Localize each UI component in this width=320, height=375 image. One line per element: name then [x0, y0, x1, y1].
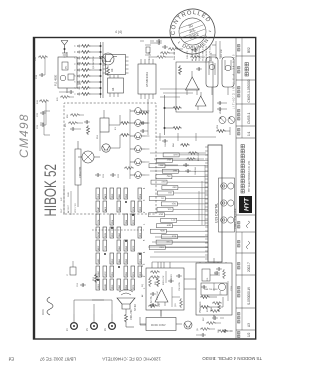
thick left border (portrait) — [33, 38, 35, 340]
svg-text:ROW: ROW — [98, 231, 100, 237]
svg-text:SQ: SQ — [142, 284, 144, 287]
strip header glyphs — [238, 45, 240, 338]
svg-text:R82 47K: R82 47K — [198, 152, 200, 161]
resistor ladder R201-R209 arrows — [77, 45, 79, 95]
power box — [196, 258, 232, 320]
power box squiggles — [210, 267, 226, 312]
CPU U19 — [205, 145, 222, 262]
bus wires to CPU — [152, 262, 226, 268]
net MUT flag — [149, 213, 165, 217]
svg-text:LM8 T.B 4558: LM8 T.B 4558 — [204, 289, 218, 291]
PA box internals — [150, 271, 180, 307]
svg-text:MUT: MUT — [158, 213, 163, 215]
test point TP3 — [109, 314, 116, 329]
LM8 sub box — [201, 283, 227, 295]
transistor Q21 — [135, 172, 142, 179]
signature squiggles — [247, 221, 250, 249]
svg-text:GND: GND — [105, 284, 107, 289]
dense label text block — [191, 45, 212, 61]
bottom-right parts near Q9 — [200, 316, 233, 333]
transistor Q9 — [184, 321, 192, 329]
speaker SP1 — [78, 151, 100, 163]
pin grid dots — [97, 201, 141, 281]
company name glyphs — [241, 145, 244, 193]
svg-text:U5 MC3361: U5 MC3361 — [145, 72, 149, 87]
svg-text:U19 DIGITAL: U19 DIGITAL — [215, 203, 219, 223]
mid caps row — [183, 152, 198, 173]
title block strip (bottom of landscape sheet) — [236, 38, 256, 340]
op-amp U6B — [196, 96, 207, 106]
net AN0 flag — [162, 169, 178, 173]
wires under labels — [64, 187, 71, 215]
transistor row Q21-Q26 — [130, 108, 145, 179]
right edge text specks — [149, 49, 223, 61]
test point TP2 — [91, 314, 98, 329]
antenna parts top right — [140, 39, 162, 43]
capacitor C35 — [196, 67, 202, 71]
svg-text:CLK: CLK — [98, 193, 100, 198]
resistor R51 — [87, 125, 90, 135]
title strip top line — [235, 38, 237, 340]
pad pair J2-3 — [221, 183, 227, 189]
PA box text specks — [157, 273, 177, 307]
inter IC vertical wires — [160, 89, 200, 97]
antenna ANT1 — [61, 41, 68, 58]
svg-text:HYT ELECTRONICS CO.,LTD.: HYT ELECTRONICS CO.,LTD. — [249, 160, 251, 192]
audio op-amp module box — [176, 62, 213, 112]
resistor R206 — [81, 63, 91, 66]
bottom edge parts — [196, 330, 232, 337]
varactor cluster wires — [156, 133, 216, 141]
small labels right of HIBOK — [61, 192, 77, 213]
svg-text:TXD: TXD — [166, 240, 171, 242]
ladder bus dots — [100, 45, 102, 95]
pad pair J2-2 — [221, 200, 227, 206]
svg-text:CM498: CM498 — [17, 113, 31, 158]
svg-text:Q3 2SC3356: Q3 2SC3356 — [93, 56, 95, 69]
mixer IC U4 — [108, 75, 124, 97]
trimpot VR4 — [228, 117, 235, 124]
svg-text:VCC: VCC — [105, 271, 107, 276]
mid region labels — [165, 142, 200, 175]
cap C75 — [217, 101, 223, 105]
speaker SP2 — [117, 290, 135, 310]
svg-text:PWR REG: PWR REG — [199, 301, 202, 313]
transistor Q24 — [135, 133, 142, 140]
top margin labels — [35, 56, 39, 129]
wire to speaker — [126, 309, 134, 327]
HIBOK 52 title — [41, 164, 59, 217]
resistor R203 — [81, 81, 91, 84]
transistor Q22 — [135, 159, 142, 166]
svg-text:DC: DC — [66, 65, 68, 69]
dashed module box — [64, 103, 156, 214]
cap C77 — [162, 139, 168, 143]
wires above U19 — [199, 165, 205, 225]
option amp bar — [75, 141, 81, 207]
resistor R73 — [216, 130, 226, 133]
net SCK flag — [162, 235, 178, 239]
svg-text:R44 10K: R44 10K — [174, 51, 176, 60]
relay K1 — [100, 118, 109, 132]
svg-text:CM05-1-030000: CM05-1-030000 — [247, 79, 251, 102]
wire through dots — [165, 95, 173, 135]
resistor R53 — [120, 122, 130, 125]
label specks left — [67, 273, 95, 287]
vco shield wires — [212, 41, 220, 59]
svg-text:GND: GND — [68, 192, 70, 197]
svg-text:1:1: 1:1 — [247, 131, 251, 136]
svg-text:DAT: DAT — [97, 206, 100, 211]
test point labels — [66, 328, 107, 331]
wire bus u5 lower — [146, 99, 148, 135]
svg-text:SCK: SCK — [171, 235, 176, 237]
resistor R205 — [81, 69, 91, 72]
svg-text:C96 470U: C96 470U — [179, 281, 181, 291]
Q3 base resistor — [107, 66, 110, 76]
flag net names — [158, 153, 178, 248]
svg-text:C301 104: C301 104 — [157, 290, 159, 300]
op-amp U6A — [186, 77, 200, 90]
svg-text:SW2: SW2 — [98, 270, 100, 276]
svg-text:BEP: BEP — [166, 224, 171, 226]
svg-text:TS MODDIN 4 OPCBL :BIS3O: TS MODDIN 4 OPCBL :BIS3O — [202, 356, 262, 361]
inter-box wires — [140, 279, 214, 325]
svg-text:AF OUT: AF OUT — [67, 204, 70, 213]
net PTT flag — [161, 218, 177, 222]
svg-text:RST: RST — [161, 180, 166, 182]
antenna coil top-left wires — [40, 111, 50, 135]
waveform scribble — [47, 297, 53, 315]
name cell glyphs — [245, 63, 248, 76]
test point TP1 — [71, 314, 78, 329]
cap C74 — [217, 107, 223, 111]
svg-text:LED: LED — [98, 258, 100, 263]
connector pad block J2 — [219, 178, 235, 232]
resistor R52 — [120, 134, 130, 137]
discriminator IC U5 — [138, 59, 156, 99]
mid region vertical wires — [150, 153, 206, 171]
svg-text:LB/87 2002 'FE 97: LB/87 2002 'FE 97 — [39, 357, 76, 362]
net IRQ flag — [156, 175, 172, 179]
top margin small parts row — [38, 56, 49, 127]
resistor R61 — [125, 313, 128, 323]
left-top extra wires — [74, 300, 112, 314]
title strip vertical dividers — [236, 56, 256, 330]
net SQL flag — [161, 202, 177, 206]
resistor R77 — [180, 144, 190, 147]
svg-text:U3: U3 — [110, 68, 114, 72]
pin grid text specks — [97, 193, 142, 289]
svg-text:MOD: MOD — [42, 309, 45, 315]
pin grid divider dashed — [92, 229, 144, 231]
svg-text:A3: A3 — [247, 323, 251, 327]
VR labels — [217, 109, 222, 129]
resistor R201 — [81, 93, 91, 96]
net LED flag — [163, 153, 179, 157]
transistor Q23 — [135, 146, 142, 153]
resistor R31 — [172, 127, 182, 130]
net BEP flag — [156, 224, 172, 228]
resistor R207 — [81, 57, 91, 60]
net label flags above CPU — [149, 153, 209, 250]
svg-text:1/2: 1/2 — [247, 332, 251, 337]
cap C91 — [80, 283, 86, 287]
DC/DC converter box — [140, 318, 182, 331]
resistor R208 — [81, 51, 91, 54]
schematic border frame — [34, 38, 256, 340]
module wiring — [100, 110, 120, 151]
net VOL flag — [157, 207, 173, 211]
resistor R71 — [139, 112, 149, 115]
svg-text:2002.7: 2002.7 — [247, 262, 251, 272]
power box internals — [214, 271, 228, 312]
transistor row bus — [130, 109, 149, 179]
svg-text:LITHO'D IN U.S.A. 36-9110: LITHO'D IN U.S.A. 36-9110 — [233, 54, 236, 109]
cap C71 — [140, 129, 146, 133]
Q9 area labels — [197, 316, 220, 333]
PA box extra squiggles — [148, 271, 183, 309]
pad pair J2-1 — [221, 217, 227, 223]
net TXD flag — [156, 240, 172, 244]
IF amp IC U3 — [103, 55, 129, 75]
junction dot B — [164, 127, 166, 129]
crystal filter FL1 — [58, 52, 81, 93]
svg-text:SW1: SW1 — [98, 283, 100, 289]
svg-text:1200*HC CB FE :CH4607E1A: 1200*HC CB FE :CH4607E1A — [102, 357, 161, 362]
svg-text:B52: B52 — [247, 47, 251, 53]
resistor R35 — [179, 65, 182, 75]
xtal Y1 — [145, 45, 151, 55]
resistor R204 — [81, 75, 91, 78]
audio PA box — [146, 262, 184, 316]
parts below FL1 — [59, 90, 75, 98]
cap C72 — [140, 121, 146, 125]
power box text specks — [207, 270, 233, 312]
resistor R91 — [95, 273, 98, 283]
small connector stub — [70, 261, 76, 275]
capacitor C51 — [84, 120, 90, 124]
svg-text:C99L/780: C99L/780 — [130, 309, 133, 320]
svg-text:COL: COL — [98, 219, 100, 224]
svg-text:VCC 7.2V: VCC 7.2V — [75, 203, 77, 213]
svg-text:Ed: Ed — [8, 357, 14, 362]
stamp: CONTROLLED DOCUMENT — [164, 3, 222, 61]
net RST flag — [151, 180, 167, 184]
svg-text:SDA: SDA — [160, 229, 165, 232]
svg-text:4 (4): 4 (4) — [115, 30, 122, 34]
power box part labels — [207, 277, 222, 311]
module upper labels — [65, 113, 69, 127]
net SDA flag — [150, 229, 166, 233]
pin number row — [144, 187, 146, 289]
svg-text:KEY: KEY — [98, 245, 100, 250]
title strip mid line — [241, 38, 243, 331]
svg-text:C99L/780: C99L/780 — [78, 166, 82, 178]
resistor R209 — [81, 45, 91, 48]
svg-text:CM05-1: CM05-1 — [247, 112, 251, 124]
transistor Q25 — [135, 120, 142, 127]
resistor R202 — [81, 87, 91, 90]
resistor R32 — [172, 107, 182, 110]
svg-text:CLK: CLK — [167, 191, 172, 193]
svg-text:BATT 7.2V 1.2A: BATT 7.2V 1.2A — [209, 46, 212, 61]
MIC module — [206, 57, 218, 95]
small caps in module — [95, 167, 134, 177]
svg-text:HYT: HYT — [244, 197, 251, 211]
svg-text:VR2 10K: VR2 10K — [221, 49, 223, 58]
trimpot VR3 — [219, 117, 226, 124]
net DAT flag — [162, 186, 178, 190]
module text specks — [97, 127, 120, 178]
lower parts wires — [223, 103, 230, 135]
strip cell values — [247, 47, 251, 337]
svg-text:S-050000-W: S-050000-W — [247, 287, 251, 305]
svg-text:U4: U4 — [111, 87, 115, 91]
svg-text:C81 104: C81 104 — [195, 166, 197, 175]
net 5V flag — [149, 197, 165, 201]
net KEY flag — [156, 158, 172, 162]
svg-text:OUT: OUT — [61, 208, 63, 213]
net RXD flag — [149, 246, 165, 250]
PA box part labels — [155, 280, 181, 307]
junction dot A — [164, 107, 166, 109]
svg-text:IRQ: IRQ — [166, 175, 170, 177]
svg-text:SP 8Ω: SP 8Ω — [134, 304, 137, 311]
net CLK flag — [158, 191, 174, 195]
resistor ladder resistors — [81, 45, 101, 96]
svg-text:DC/DC CONV: DC/DC CONV — [151, 325, 166, 327]
wire-end labels column — [141, 264, 144, 297]
right edge component column — [160, 45, 205, 58]
transistor Q5 — [102, 144, 110, 152]
ladder pin labels — [75, 45, 77, 95]
pin grid label block — [96, 188, 142, 290]
svg-text:U21 AF PA: U21 AF PA — [150, 296, 153, 308]
SPK module — [222, 57, 234, 95]
svg-text:U19B-1 - LZA-LIVER: U19B-1 - LZA-LIVER — [234, 208, 237, 229]
net AN1 flag — [149, 164, 165, 168]
module upper resistors — [68, 114, 84, 131]
vertical connect wires — [148, 237, 208, 262]
svg-text:HIBOK 52: HIBOK 52 — [41, 164, 59, 217]
svg-text:FL1 455E: FL1 455E — [54, 74, 58, 86]
transistor Q3 — [99, 53, 117, 65]
company logo block — [239, 196, 252, 213]
transistor Q26 — [135, 108, 142, 115]
svg-text:R302 4.7K: R302 4.7K — [163, 275, 165, 285]
squelch pot cluster — [150, 41, 183, 58]
ladder bus pair — [101, 42, 104, 98]
